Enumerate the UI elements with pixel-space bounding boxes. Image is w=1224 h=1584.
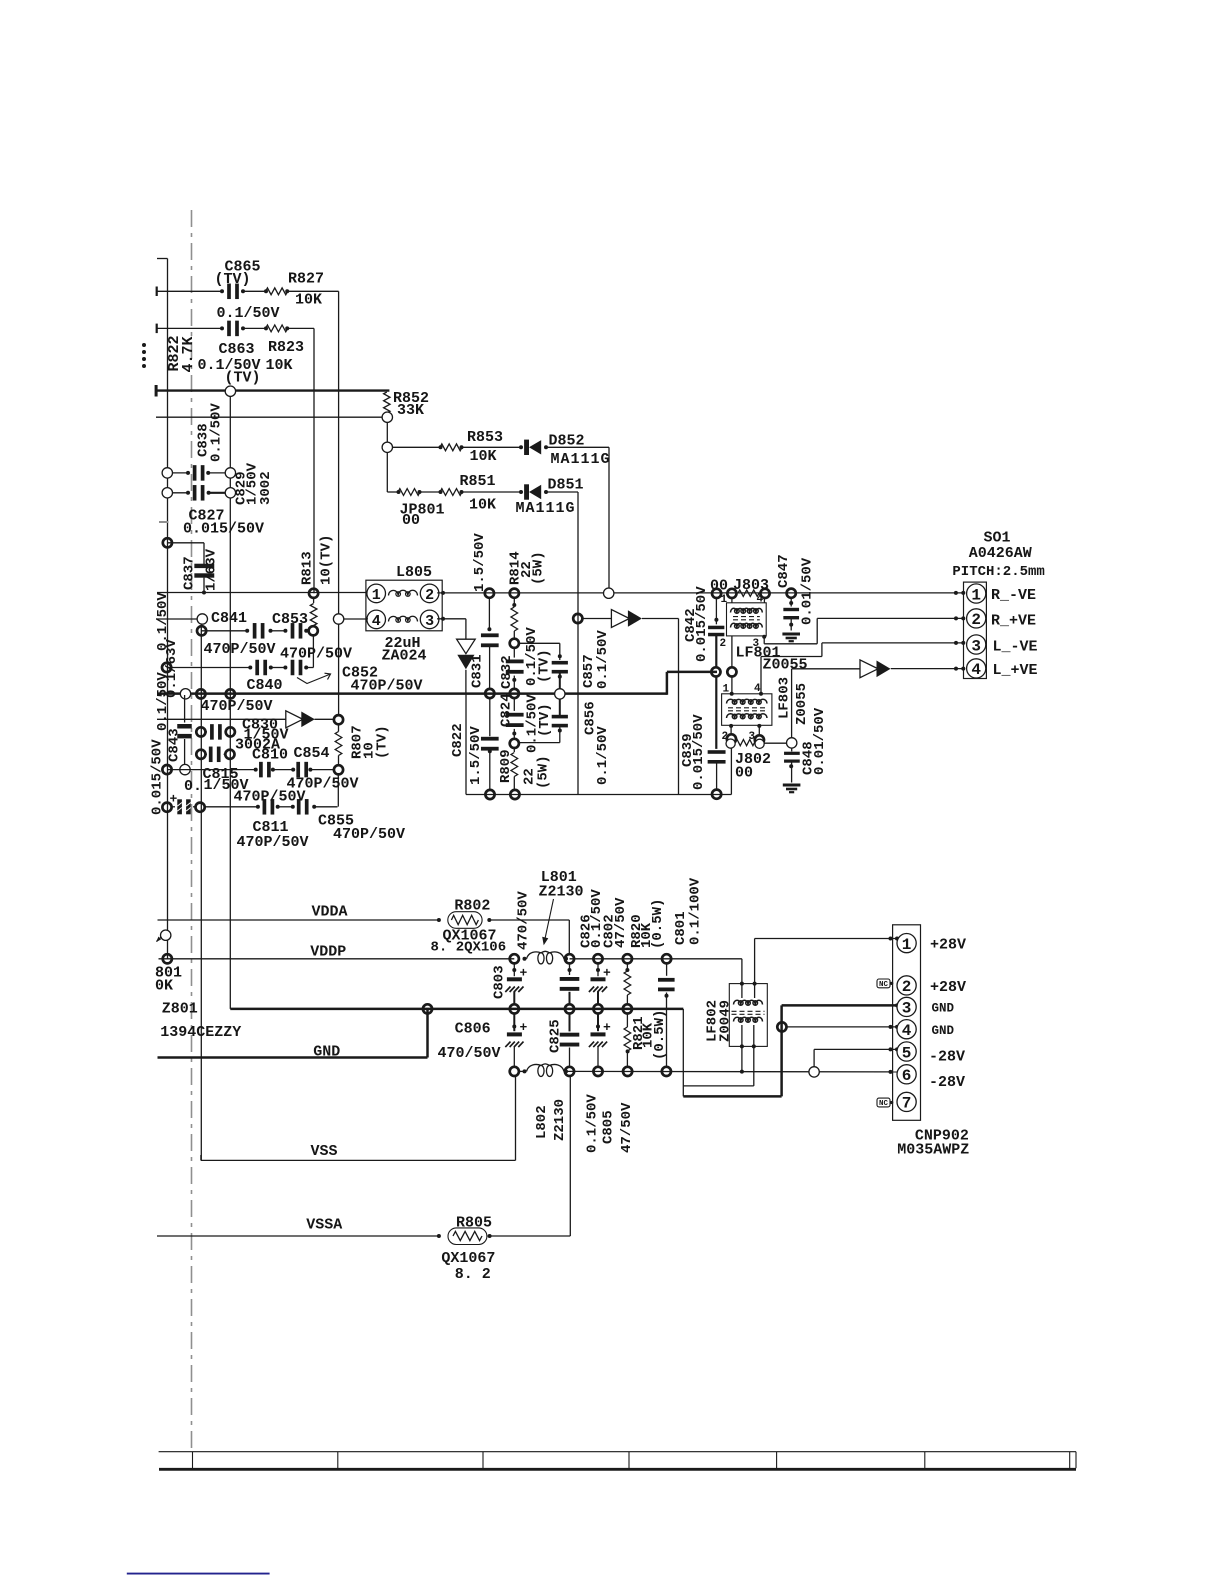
label C806 plus: [520, 1020, 528, 1035]
node R820 top: [623, 954, 632, 963]
wire buffer L riser: [792, 669, 860, 738]
svg-text:0.01/50V: 0.01/50V: [812, 707, 828, 775]
label C852: [342, 665, 378, 682]
wire thick bus row: [155, 385, 390, 397]
transformer LF802 winding bottom: [734, 1017, 763, 1022]
node pin4 branch: [777, 1022, 786, 1031]
wire R853 node to R851 row: [387, 452, 398, 492]
inductor L805 pin1: [367, 584, 386, 604]
label VSS: [311, 1143, 338, 1160]
label C853 value: [280, 646, 352, 663]
svg-text:470/50V: 470/50V: [438, 1045, 501, 1062]
label R802: [454, 898, 490, 915]
wire L805 pin4 stub: [366, 618, 369, 620]
svg-text:470/50V: 470/50V: [516, 891, 532, 950]
wire TV cap top jog: [519, 643, 560, 660]
inductor L805 coil top: [389, 590, 418, 596]
svg-text:R813: R813: [300, 551, 316, 585]
label C802: [601, 914, 617, 948]
svg-text:C832: C832: [499, 655, 515, 689]
wire J802 to C848: [764, 742, 786, 744]
label R805 8.2: [455, 1266, 491, 1283]
label C847 value: [800, 557, 816, 625]
svg-text:R851: R851: [460, 473, 496, 490]
label C822 value: [468, 726, 484, 785]
svg-text:R809: R809: [498, 749, 514, 783]
label J802: [735, 751, 771, 768]
capacitor C811: [256, 799, 280, 815]
node GND bus junction: [423, 1004, 432, 1013]
transformer LF802 winding top: [734, 1000, 763, 1005]
label R814 (5W): [531, 551, 547, 585]
label R822: [166, 335, 183, 371]
capacitor C826 polarized: [589, 963, 607, 1004]
label LF803 pin1: [723, 684, 730, 696]
label C865: [225, 259, 261, 276]
label C853: [272, 611, 308, 628]
svg-text:1: 1: [971, 586, 981, 604]
svg-text:C854: C854: [294, 745, 330, 762]
transformer LF803 box: [722, 694, 772, 726]
wire GND bus drop: [682, 1009, 684, 1097]
node R820 bottom: [623, 1004, 632, 1013]
svg-text:PITCH:2.5mm: PITCH:2.5mm: [952, 564, 1044, 580]
label C843: [167, 728, 183, 762]
node L801 left: [510, 954, 519, 963]
label C842: [683, 608, 699, 642]
label C847: [776, 554, 792, 588]
label L805 22uH: [385, 635, 421, 652]
svg-text:D851: D851: [548, 477, 584, 494]
node J803 right: [760, 589, 769, 598]
label R807 10: [362, 742, 378, 759]
wire C837 stub: [167, 543, 204, 564]
label C863: [219, 341, 255, 358]
label SO1 R_+VE: [991, 613, 1036, 630]
svg-text:C863: C863: [219, 341, 255, 358]
label C826: [579, 914, 595, 948]
svg-text:C803: C803: [491, 965, 507, 999]
wire row C865: [156, 287, 339, 297]
label C815: [203, 766, 239, 783]
svg-text:0.1/50V: 0.1/50V: [217, 305, 280, 322]
node row C838 left: [162, 468, 172, 478]
svg-text:MA111G: MA111G: [551, 451, 611, 468]
label C806: [455, 1021, 491, 1038]
label R814 22: [519, 561, 535, 578]
svg-text:2: 2: [971, 611, 981, 629]
capacitor C815: [205, 747, 226, 763]
node C831 bottom: [485, 689, 494, 698]
svg-text:10K: 10K: [469, 497, 496, 514]
connector CNP902 pin6: [897, 1065, 916, 1085]
label C841: [211, 610, 247, 627]
svg-text:4: 4: [754, 683, 761, 695]
label pin3 GND: [932, 1002, 955, 1016]
label R813 value: [319, 535, 335, 585]
label LF803 pin3: [749, 731, 756, 743]
inductor L802: [523, 1064, 569, 1077]
node TV cap bus circle: [555, 689, 565, 699]
capacitor C838: [186, 465, 210, 481]
svg-text:2: 2: [425, 587, 434, 604]
label C803 value: [516, 891, 532, 950]
label C848 value: [812, 707, 828, 775]
label C831: [470, 654, 486, 688]
transformer LF803 winding top: [727, 699, 767, 704]
label C865 (TV): [215, 271, 251, 288]
ground C847: [782, 633, 800, 643]
svg-text:R827: R827: [288, 271, 324, 288]
node R809 bottom: [510, 790, 519, 799]
svg-text:VSSA: VSSA: [306, 1217, 342, 1234]
wire R827 descender: [338, 291, 340, 714]
label LF801: [736, 645, 781, 662]
svg-text:00: 00: [735, 765, 753, 782]
svg-text:4: 4: [757, 594, 764, 606]
node row C827 right: [225, 488, 235, 498]
node junction C831 col: [485, 589, 494, 598]
capacitor C806 polarized: [505, 1013, 523, 1067]
label C856: [583, 701, 599, 735]
label C830 value: [244, 727, 289, 744]
label R823: [268, 339, 304, 356]
svg-text:C843: C843: [167, 728, 183, 762]
node R807 top: [334, 715, 343, 724]
svg-text:470P/50V: 470P/50V: [234, 789, 306, 806]
label JP801: [400, 502, 445, 519]
label C832 (TV): [537, 649, 553, 683]
svg-text:6: 6: [902, 1067, 912, 1085]
node buffer R input: [573, 614, 582, 623]
label pin6 -28V: [929, 1074, 965, 1091]
wire VSS: [201, 1075, 516, 1160]
resistor R851: [439, 489, 464, 496]
node C839 bottom: [712, 790, 721, 799]
inductor L805 box: [366, 580, 442, 631]
node bus edge circle: [180, 689, 190, 699]
svg-text:4: 4: [902, 1022, 912, 1040]
label R820 (0.5W): [650, 899, 666, 949]
node R852 bottom: [382, 412, 392, 422]
capacitor C832: [506, 648, 524, 689]
node C801 top: [662, 954, 671, 963]
svg-text:10K: 10K: [266, 357, 293, 374]
wire VDDP: [159, 958, 515, 960]
label C803 plus: [520, 966, 528, 981]
inductor L805 pin3: [420, 610, 439, 630]
label C824: [498, 693, 514, 727]
capacitor C832 TV: [552, 654, 568, 689]
resistor R823: [264, 325, 289, 332]
wire pin3 branch lower: [465, 670, 467, 694]
label R809: [498, 749, 514, 783]
label LF801 pin3: [753, 638, 760, 650]
svg-text:1: 1: [902, 936, 912, 954]
svg-text:33K: 33K: [397, 402, 424, 419]
svg-text:2: 2: [902, 978, 912, 996]
svg-text:0.1/100V: 0.1/100V: [687, 877, 703, 945]
transformer LF801 box: [727, 603, 767, 636]
node row C838 right: [225, 468, 235, 478]
capacitor C824 TV: [552, 699, 568, 743]
wire row C811: [205, 806, 338, 808]
wire buffer R input: [582, 618, 611, 620]
connector CNP902 box: [893, 925, 921, 1121]
label J803 00: [710, 578, 728, 595]
wire LF803 pin4 to SO1 pin3: [761, 641, 963, 657]
label C863 (TV): [225, 370, 261, 387]
footer blue line: [127, 1573, 270, 1575]
label C830 3002A: [235, 737, 280, 754]
resistor R814: [511, 598, 518, 639]
svg-text:C837: C837: [182, 556, 198, 590]
svg-text:1/63V: 1/63V: [204, 548, 220, 591]
label L805 ZA024: [382, 648, 427, 665]
transformer LF801 stubs: [732, 598, 766, 668]
node row C811 rail: [162, 803, 171, 812]
label LF802 Z0049: [718, 1000, 734, 1042]
label C826 plus: [603, 966, 611, 981]
wire rail x=201.3: [200, 624, 202, 1160]
label C852 value: [351, 678, 423, 695]
svg-text:C853: C853: [272, 611, 308, 628]
wire thick bus: [157, 672, 717, 695]
svg-text:0K: 0K: [155, 978, 173, 995]
label C838 value: [209, 403, 225, 462]
transformer LF801 winding top: [731, 608, 763, 613]
label L805: [396, 564, 432, 581]
label C832 value: [524, 627, 540, 686]
svg-text:C824: C824: [498, 693, 514, 727]
svg-text:Z0049: Z0049: [718, 1000, 734, 1042]
capacitor C841: [245, 623, 272, 639]
svg-text:C847: C847: [776, 554, 792, 588]
label row value 470P/50V: [201, 698, 273, 715]
svg-text:47/50V: 47/50V: [613, 897, 629, 948]
label pin1 +28V: [930, 937, 966, 954]
frame table separators: [193, 1452, 1077, 1469]
label VSSA: [306, 1217, 342, 1234]
node C825 bottom: [565, 1067, 574, 1076]
svg-text:2: 2: [720, 638, 727, 650]
label C815 value: [204, 777, 249, 794]
diode D851: [519, 484, 548, 499]
label C865 value: [217, 305, 280, 322]
wire D851 descender: [547, 492, 578, 795]
wire pin5: [814, 1047, 899, 1066]
wire row C838: [168, 472, 231, 474]
node junction R814 col: [510, 589, 519, 598]
svg-text:0.1/50V: 0.1/50V: [584, 1094, 600, 1153]
label R827 10K: [295, 292, 322, 309]
label C854: [294, 745, 330, 762]
label CNP902 part: [897, 1142, 969, 1159]
svg-text:L_-VE: L_-VE: [993, 639, 1038, 656]
svg-text:C825: C825: [547, 1019, 563, 1053]
svg-text:D852: D852: [549, 433, 585, 450]
label R851 10K: [469, 497, 496, 514]
svg-text:470P/50V: 470P/50V: [201, 698, 273, 715]
node C806 bottom: [510, 1067, 519, 1076]
label R823 10K: [266, 357, 293, 374]
svg-text:SO1: SO1: [984, 530, 1011, 547]
capacitor C822: [481, 698, 499, 790]
svg-text:0.1/50V: 0.1/50V: [209, 403, 225, 462]
svg-text:GND: GND: [932, 1024, 955, 1038]
capacitor C842: [708, 598, 724, 668]
svg-text:(0.5W): (0.5W): [652, 1010, 668, 1060]
resistor R805: [437, 1228, 492, 1245]
transformer LF801 winding bottom: [731, 623, 763, 628]
label C822: [450, 723, 466, 757]
node J802 left pair: [726, 734, 736, 748]
svg-text:1.5/50V: 1.5/50V: [472, 533, 488, 592]
connector CNP902 pin3: [897, 997, 916, 1017]
label C811: [253, 819, 289, 836]
wire LF801 pin3 to SO1 pin2: [764, 616, 963, 643]
node C824 bottom: [510, 739, 519, 748]
label D851: [548, 477, 584, 494]
node C803 bottom: [510, 1004, 519, 1013]
label LF801 pin4: [757, 594, 764, 606]
frame table bottom line: [159, 1468, 1076, 1471]
label L802: [534, 1105, 550, 1139]
connector SO1 pin3: [961, 635, 986, 655]
svg-text:00: 00: [710, 578, 728, 595]
resistor R852: [384, 392, 390, 413]
label R809 22: [522, 768, 538, 785]
buffer arrow L channel: [860, 660, 891, 678]
label C802 value: [613, 897, 629, 948]
resistor J803: [738, 590, 759, 596]
label C839 value: [691, 714, 707, 790]
svg-text:470P/50V: 470P/50V: [351, 678, 423, 695]
capacitor C854: [291, 762, 312, 778]
label R807: [350, 725, 366, 759]
label R809 (5W): [536, 755, 552, 789]
svg-text:1.5/50V: 1.5/50V: [468, 726, 484, 785]
label R813: [300, 551, 316, 585]
label C825 value: [584, 1094, 600, 1153]
label CNP902: [915, 1128, 969, 1145]
label C805 value: [619, 1102, 635, 1153]
svg-text:3: 3: [902, 1000, 912, 1018]
node R814 bottom: [510, 639, 519, 648]
svg-text:0.1/50V: 0.1/50V: [155, 672, 171, 731]
svg-text:470P/50V: 470P/50V: [204, 641, 276, 658]
svg-text:10K: 10K: [295, 292, 322, 309]
svg-text:5: 5: [902, 1044, 912, 1062]
node L801 right: [565, 954, 574, 963]
label R814: [508, 551, 524, 585]
node C843 bottom: [180, 764, 190, 774]
wire buffer row: [157, 718, 334, 720]
node R821 bottom: [623, 1067, 632, 1076]
label C825: [547, 1019, 563, 1053]
svg-text:10(TV): 10(TV): [319, 535, 335, 585]
wire GND thick corner: [683, 1005, 781, 1096]
connector CNP902 pin4: [897, 1020, 916, 1040]
wire VDDA: [158, 920, 570, 954]
label J803: [733, 577, 769, 594]
svg-text:(TV): (TV): [215, 271, 251, 288]
wire R823 descender: [313, 328, 315, 593]
svg-text:C822: C822: [450, 723, 466, 757]
svg-text:R_-VE: R_-VE: [991, 587, 1036, 604]
capacitor C805 polarized: [589, 1013, 607, 1067]
svg-text:VDDP: VDDP: [310, 944, 346, 961]
board boundary dash-dot line: [191, 210, 193, 1448]
symbol NC pin2: [877, 979, 893, 989]
connector CNP902 pin2: [897, 976, 916, 996]
capacitor C852: [283, 660, 308, 676]
label VDDP: [310, 944, 346, 961]
svg-text:R_+VE: R_+VE: [991, 613, 1036, 630]
svg-text:8. 2: 8. 2: [455, 1266, 491, 1283]
svg-text:MA111G: MA111G: [516, 500, 576, 517]
label C855: [318, 813, 354, 830]
svg-text:1: 1: [721, 594, 728, 606]
label C827: [189, 508, 225, 525]
label R853: [467, 429, 503, 446]
svg-text:0.1/50V: 0.1/50V: [595, 726, 611, 785]
label C801 value: [687, 877, 703, 945]
svg-text:(TV): (TV): [537, 703, 553, 737]
capacitor C831: [481, 598, 499, 690]
svg-text:LF803: LF803: [777, 677, 793, 719]
svg-text:C806: C806: [455, 1021, 491, 1038]
wire VSS rail: [519, 1070, 897, 1074]
node C842 bottom bus: [711, 667, 720, 676]
label LF802: [705, 1000, 721, 1042]
node C830 left: [196, 727, 205, 736]
resistor JP801: [397, 489, 422, 496]
svg-text:7: 7: [902, 1095, 912, 1113]
svg-text:1: 1: [372, 587, 381, 604]
connector SO1 pin1: [961, 584, 986, 604]
svg-text:GND: GND: [313, 1044, 340, 1061]
resistor R821: [624, 1013, 631, 1067]
svg-text:Z0055: Z0055: [794, 683, 810, 725]
capacitor C827: [186, 485, 211, 501]
svg-text:(0.5W): (0.5W): [650, 899, 666, 949]
wire row C840: [167, 667, 314, 669]
node C802 mid: [593, 1004, 602, 1013]
node C802 top: [593, 954, 602, 963]
svg-text:C805: C805: [600, 1110, 616, 1144]
wire buffer R output: [642, 619, 679, 795]
node bus rail2 junction: [226, 689, 235, 698]
buffer arrow C830 row: [286, 711, 315, 728]
ground C848: [783, 784, 801, 794]
svg-text:4.7K: 4.7K: [180, 336, 197, 372]
label C855 value: [333, 826, 405, 843]
svg-text:R805: R805: [456, 1215, 492, 1232]
capacitor C855: [291, 799, 316, 815]
wire block bottom bus: [466, 794, 731, 796]
wire JP801 to R851: [420, 491, 440, 493]
svg-text:(TV): (TV): [225, 370, 261, 387]
wire row 417: [156, 416, 382, 418]
wire pin3 GND: [782, 1003, 899, 1007]
svg-text:00: 00: [402, 512, 420, 529]
svg-text:-28V: -28V: [929, 1074, 965, 1091]
node R807 bottom: [334, 765, 343, 774]
node C847 top: [787, 589, 796, 598]
label C856 value: [595, 726, 611, 785]
label C815 0.: [184, 778, 202, 795]
